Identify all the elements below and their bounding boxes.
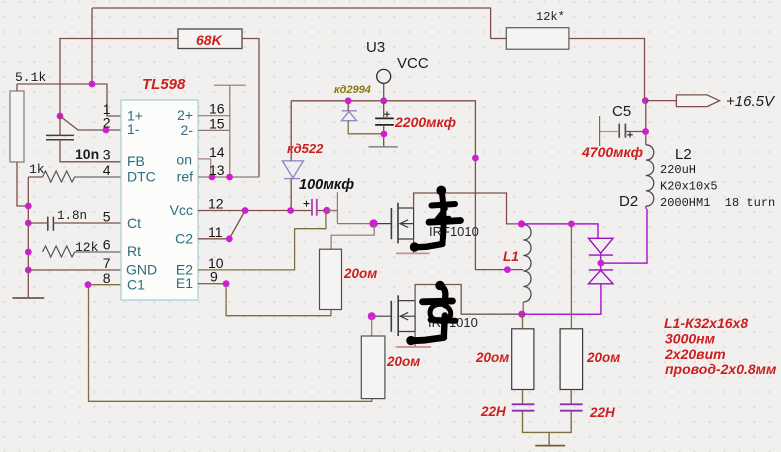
- svg-text:13: 13: [209, 162, 225, 178]
- resistor 5.1k: [10, 84, 28, 206]
- svg-text:L2: L2: [675, 146, 692, 163]
- svg-text:2200мкф: 2200мкф: [394, 114, 456, 130]
- wire to connector: [645, 100, 676, 102]
- wire Q1 source stub: [413, 239, 415, 253]
- svg-text:3: 3: [103, 147, 111, 163]
- wire ref pin13 row: [198, 176, 259, 178]
- IC pin numbers left: [103, 101, 111, 286]
- wire gate2 to resistor: [371, 316, 373, 336]
- wire Q2 source stub: [414, 332, 416, 347]
- power symbol U3 VCC circle: [377, 69, 391, 83]
- node pin9: [223, 280, 230, 287]
- svg-text:2000НМ1 18 turn: 2000НМ1 18 turn: [660, 196, 775, 210]
- wire E2 pin10 olive path to cap node: [198, 211, 326, 270]
- svg-text:4700мкф: 4700мкф: [581, 144, 643, 160]
- capacitor 22Н right: [560, 404, 583, 410]
- node L1 centre tap: [504, 266, 511, 273]
- svg-text:U3: U3: [366, 39, 385, 56]
- node A junction top rail / divider: [89, 81, 96, 88]
- wire кд2994 leads: [347, 101, 349, 111]
- IC labels right column: [170, 107, 194, 291]
- svg-text:20ом: 20ом: [343, 266, 377, 281]
- ground left: [12, 297, 44, 299]
- svg-text:9: 9: [210, 269, 218, 285]
- svg-text:4: 4: [103, 162, 111, 178]
- svg-text:7: 7: [103, 255, 111, 271]
- IC U1 TL598 body: [121, 100, 198, 300]
- svg-text:DTC: DTC: [127, 169, 156, 185]
- svg-text:1.8n: 1.8n: [57, 209, 87, 223]
- wire 10n leads: [60, 116, 121, 162]
- diode D2 upper: [589, 238, 614, 255]
- inductor L2: [646, 145, 654, 206]
- wire кд522 leads: [290, 101, 292, 211]
- node ref-14: [209, 174, 216, 181]
- svg-text:L1-К32х16х8: L1-К32х16х8: [664, 315, 748, 331]
- wire U3 stub: [383, 83, 385, 100]
- wire D2 middle node: [601, 209, 647, 270]
- node Q2 gate: [368, 312, 376, 320]
- transistor Q2 IRF1010 symbol: [391, 295, 398, 336]
- svg-text:220uH: 220uH: [660, 163, 696, 177]
- svg-text:C1: C1: [127, 276, 145, 292]
- svg-text:кд2994: кд2994: [334, 84, 371, 96]
- svg-text:11: 11: [208, 224, 223, 240]
- svg-text:FB: FB: [127, 153, 145, 169]
- svg-text:10n: 10n: [75, 146, 99, 162]
- wire C5 leads: [600, 131, 620, 133]
- node D2 centre: [598, 260, 605, 267]
- svg-text:1k: 1k: [29, 162, 45, 177]
- svg-text:20ом: 20ом: [586, 350, 620, 365]
- resistor R gate2 20ом: [361, 336, 385, 399]
- node pin2 junction: [103, 127, 110, 134]
- bar Q1 source pale: [396, 252, 430, 254]
- svg-text:L1: L1: [503, 249, 519, 264]
- capacitor 10n: [46, 135, 74, 139]
- resistor 12k zigzag: [43, 246, 122, 257]
- svg-text:68K: 68K: [196, 32, 223, 48]
- resistor 68K: [178, 29, 242, 49]
- svg-text:2-: 2-: [181, 122, 194, 138]
- svg-text:+16.5V: +16.5V: [726, 93, 776, 110]
- IC pin numbers right: [208, 101, 225, 285]
- node rail 1.8n: [25, 220, 32, 227]
- node 2200мкф bottom: [381, 131, 388, 138]
- node 10n top junction: [57, 113, 64, 120]
- svg-text:15: 15: [209, 115, 225, 131]
- node rail GND row: [25, 267, 32, 274]
- capacitor 22Н left: [512, 404, 535, 410]
- svg-text:GND: GND: [126, 262, 157, 278]
- node VCC rail branch: [472, 155, 479, 162]
- wire 5.1k top node to pin 1: [17, 84, 121, 116]
- svg-text:6: 6: [103, 237, 111, 253]
- svg-text:22Н: 22Н: [589, 405, 615, 420]
- wire diagonal to pin 2: [60, 116, 121, 130]
- resistor R snub2 20ом: [560, 329, 583, 390]
- resistor 1k zigzag: [43, 171, 122, 182]
- svg-text:100мкф: 100мкф: [299, 177, 354, 193]
- wire 1.8n leads to pin 5: [28, 222, 121, 224]
- svg-text:5: 5: [103, 209, 111, 225]
- wire top feedback rail from +16.5V node to divider: [92, 8, 645, 101]
- inductor L1: [523, 224, 531, 302]
- wire 68K left branch: [60, 39, 178, 117]
- svg-text:1-: 1-: [127, 121, 140, 137]
- svg-text:5.1k: 5.1k: [15, 70, 46, 85]
- wire purple L1 bottom to D2: [522, 284, 601, 314]
- node output +16.5V: [642, 97, 649, 104]
- wire output node rail: [645, 101, 647, 145]
- scribble over Q2: [407, 281, 456, 345]
- svg-text:Ct: Ct: [127, 215, 141, 231]
- wire 68K right lead down to ref row: [242, 39, 259, 178]
- resistor 12k*: [491, 28, 569, 50]
- wire pin14 to ref row: [198, 159, 211, 177]
- svg-text:кд522: кд522: [287, 141, 324, 156]
- wire Q2 gate lead: [372, 315, 392, 317]
- svg-text:12k*: 12k*: [536, 10, 565, 24]
- svg-text:14: 14: [209, 144, 225, 160]
- svg-text:16: 16: [209, 101, 225, 117]
- svg-text:провод-2х0.8мм: провод-2х0.8мм: [665, 361, 777, 377]
- svg-text:20ом: 20ом: [386, 354, 420, 369]
- svg-text:VCC: VCC: [397, 55, 429, 72]
- diode кд522: [282, 161, 303, 179]
- wire gate1 to resistor path: [331, 224, 374, 250]
- connector +16.5V flag: [676, 95, 719, 107]
- node diag top: [242, 207, 249, 214]
- svg-text:TL598: TL598: [142, 76, 186, 93]
- scribble over Q1: [410, 186, 460, 251]
- diode D2 lower: [589, 270, 614, 284]
- diode кд2994: [342, 111, 357, 121]
- node кд2994 top: [345, 97, 352, 104]
- node ref-15: [226, 174, 233, 181]
- ground under 2200мкф: [369, 146, 398, 148]
- plus sign 100мкф: [304, 201, 310, 207]
- svg-text:C2: C2: [175, 230, 193, 246]
- bar Q2 source pale: [396, 346, 431, 348]
- node 100мкф output: [323, 207, 330, 214]
- svg-text:K20x10x5: K20x10x5: [660, 180, 718, 194]
- node кд522 anode on pin12 row: [287, 207, 294, 214]
- svg-text:2х20вит: 2х20вит: [664, 346, 726, 362]
- wire Q1 drain path to L1 top: [414, 193, 522, 224]
- resistor R snub1 20ом: [512, 329, 534, 390]
- svg-text:20ом: 20ом: [475, 350, 509, 365]
- wire 2200мкф leads: [383, 101, 385, 147]
- resistor R gate1 20ом: [320, 249, 342, 309]
- plus sign C5: [627, 132, 633, 138]
- node pin11: [226, 235, 233, 242]
- wire pin16 pin15 tie bar to ref: [198, 85, 246, 177]
- wire VCC rail: [291, 101, 523, 270]
- node Q1 gate: [369, 219, 377, 227]
- svg-text:Rt: Rt: [127, 243, 141, 259]
- wire diagonal pin11 to pin12 row: [198, 211, 245, 239]
- svg-text:2+: 2+: [177, 107, 193, 123]
- node VCC junction: [380, 97, 387, 104]
- node rail 5.1k: [25, 203, 32, 210]
- svg-text:12k: 12k: [75, 240, 99, 255]
- svg-text:12: 12: [208, 196, 224, 212]
- capacitor 100мкф plates: [312, 199, 317, 216]
- svg-text:8: 8: [103, 270, 111, 286]
- svg-text:on: on: [176, 152, 192, 168]
- node L1 top: [518, 220, 525, 227]
- wire Q1 gate lead: [374, 223, 392, 225]
- wire C1 pin 8 to bottom rail: [89, 285, 372, 402]
- transistor Q1 IRF1010 symbol: [391, 203, 398, 244]
- svg-text:ref: ref: [177, 169, 193, 185]
- node L1 bottom: [518, 311, 525, 318]
- wire C5 left dangling bar: [599, 116, 601, 146]
- wire purple L1 top to D2: [522, 224, 599, 238]
- svg-text:C5: C5: [612, 103, 631, 120]
- node C5 right: [642, 128, 649, 135]
- svg-text:22Н: 22Н: [480, 404, 506, 419]
- wire Vcc pin12 row: [198, 210, 337, 212]
- wire GND pin 7 row: [28, 269, 121, 271]
- wire left ground rail: [28, 177, 42, 298]
- wire E1 pin9 olive path to R bottom: [198, 284, 331, 316]
- capacitor 1.8n: [48, 217, 54, 231]
- svg-text:E1: E1: [176, 275, 193, 291]
- IC labels left column: [126, 108, 157, 293]
- wire 100мкф output stub vertical: [327, 192, 372, 223]
- wire L1 bottom stub: [522, 302, 524, 314]
- svg-text:IRF1010: IRF1010: [429, 224, 479, 239]
- wire snubber leads olive: [523, 314, 572, 445]
- capacitor C5 4700мкф: [619, 124, 625, 138]
- svg-text:3000нм: 3000нм: [665, 331, 716, 347]
- wire L2 bottom purple: [645, 206, 647, 209]
- node D2 top tap: [568, 221, 575, 228]
- node rail 12k: [25, 249, 32, 256]
- plus sign 2200мкф: [384, 111, 390, 117]
- svg-text:D2: D2: [619, 193, 638, 210]
- svg-text:2: 2: [103, 115, 111, 131]
- capacitor 2200мкф: [375, 118, 394, 125]
- svg-text:Vcc: Vcc: [170, 202, 193, 218]
- wire D2 tap down to 20ом: [570, 224, 572, 329]
- ground bottom centre: [535, 445, 565, 447]
- node pin8 junction: [85, 281, 92, 288]
- wire Q2 drain path to L1 bottom: [415, 285, 522, 315]
